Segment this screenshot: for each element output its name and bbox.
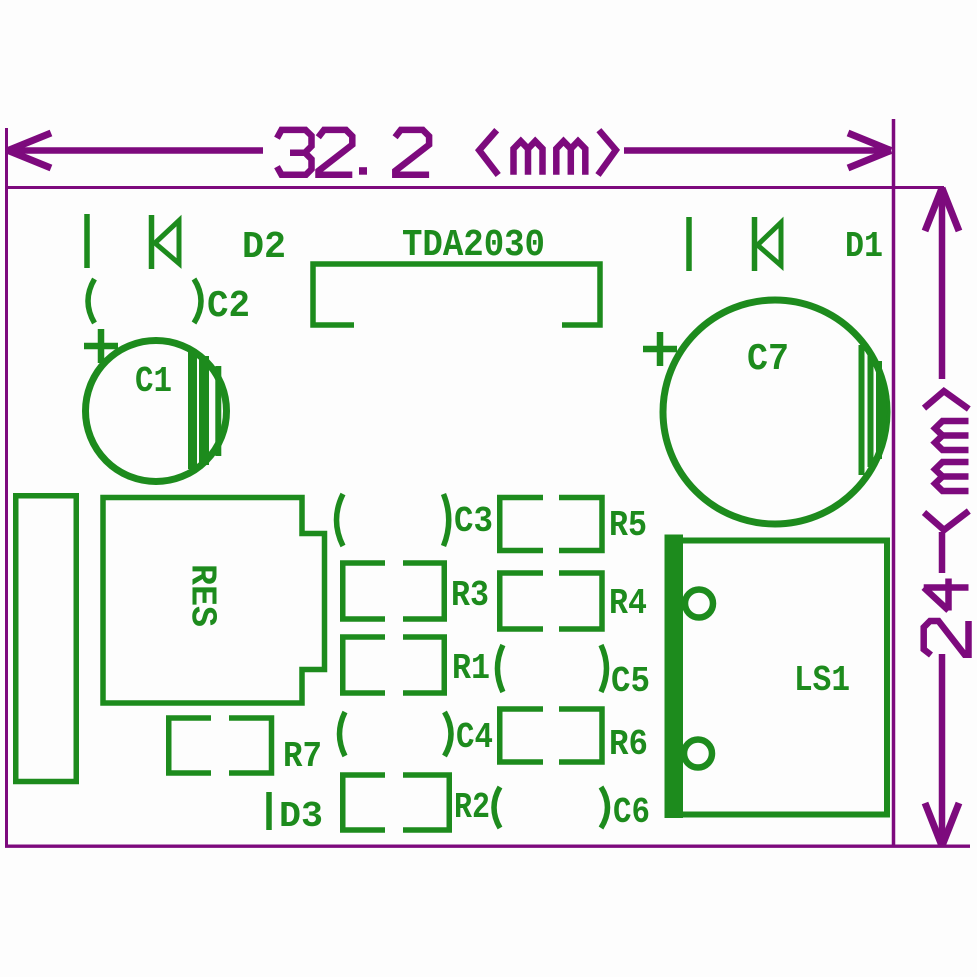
svg-text:R2: R2 xyxy=(454,787,490,828)
svg-text:C3: C3 xyxy=(454,501,493,542)
svg-text:R7: R7 xyxy=(283,736,322,777)
svg-text:R3: R3 xyxy=(451,575,489,616)
svg-text:C6: C6 xyxy=(613,792,650,833)
svg-text:C5: C5 xyxy=(611,661,650,702)
svg-text:LS1: LS1 xyxy=(794,660,850,701)
svg-text:D2: D2 xyxy=(242,226,286,269)
svg-text:C7: C7 xyxy=(747,338,789,381)
svg-text:RES: RES xyxy=(182,564,223,627)
svg-text:R1: R1 xyxy=(452,648,490,689)
svg-text:R5: R5 xyxy=(609,505,647,546)
svg-text:R4: R4 xyxy=(609,583,647,624)
svg-text:D3: D3 xyxy=(279,796,323,837)
svg-text:C1: C1 xyxy=(135,361,172,402)
svg-text:D1: D1 xyxy=(845,226,883,267)
svg-text:C4: C4 xyxy=(456,717,493,758)
svg-text:TDA2030: TDA2030 xyxy=(402,224,545,267)
svg-text:C2: C2 xyxy=(207,285,250,328)
svg-text:R6: R6 xyxy=(609,724,648,765)
